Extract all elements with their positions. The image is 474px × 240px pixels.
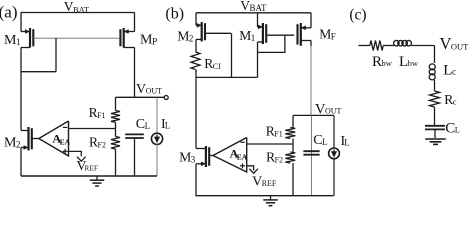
svg-text:OUT: OUT — [146, 86, 163, 95]
svg-text:EA: EA — [60, 138, 71, 147]
svg-text:M: M — [319, 26, 331, 41]
svg-text:F1: F1 — [97, 111, 105, 120]
svg-text:3: 3 — [191, 155, 196, 165]
svg-text:c: c — [453, 97, 457, 107]
svg-text:2: 2 — [16, 140, 20, 150]
svg-text:M: M — [239, 28, 251, 43]
svg-text:F1: F1 — [274, 129, 282, 138]
svg-text:V: V — [440, 34, 452, 53]
svg-text:CI: CI — [213, 62, 221, 71]
svg-text:REF: REF — [262, 179, 277, 188]
svg-text:(b): (b) — [165, 5, 184, 22]
svg-text:L: L — [322, 137, 328, 147]
svg-text:(a): (a) — [0, 3, 17, 22]
svg-text:REF: REF — [84, 164, 98, 173]
svg-text:bw: bw — [382, 58, 393, 68]
svg-text:L: L — [344, 137, 350, 147]
svg-text:OUT: OUT — [325, 107, 342, 116]
svg-text:L: L — [165, 120, 171, 130]
svg-text:M: M — [177, 28, 189, 43]
svg-text:1: 1 — [16, 37, 20, 47]
svg-text:2: 2 — [189, 33, 194, 43]
svg-text:bw: bw — [408, 58, 419, 68]
svg-text:R: R — [372, 54, 382, 70]
svg-text:L: L — [455, 125, 460, 135]
svg-text:BAT: BAT — [73, 5, 90, 15]
svg-text:V: V — [252, 175, 262, 190]
svg-text:EA: EA — [237, 153, 248, 162]
svg-text:L: L — [145, 121, 151, 131]
svg-text:F2: F2 — [275, 155, 283, 164]
svg-text:c: c — [452, 67, 456, 77]
svg-text:1: 1 — [251, 33, 256, 43]
svg-text:OUT: OUT — [451, 41, 469, 51]
svg-text:V: V — [136, 82, 146, 97]
svg-text:F: F — [331, 31, 336, 41]
svg-text:P: P — [152, 37, 157, 47]
svg-text:BAT: BAT — [249, 3, 267, 13]
svg-text:(c): (c) — [349, 7, 366, 24]
svg-text:F2: F2 — [98, 141, 106, 150]
svg-text:M: M — [179, 150, 191, 165]
